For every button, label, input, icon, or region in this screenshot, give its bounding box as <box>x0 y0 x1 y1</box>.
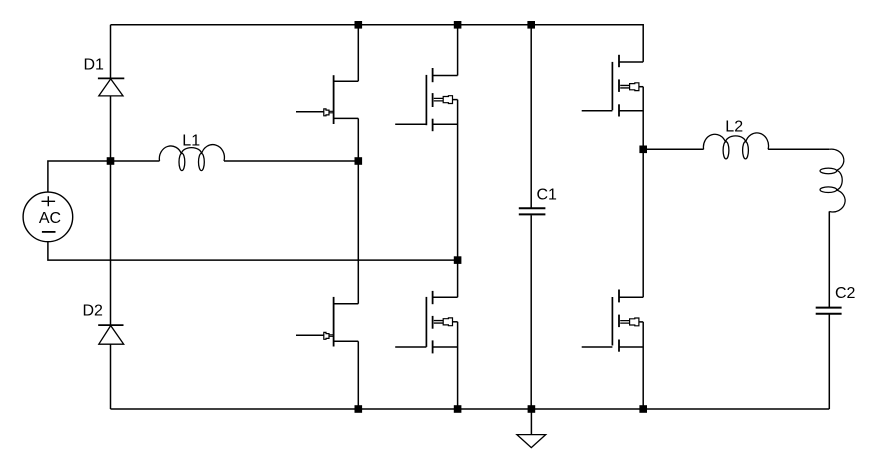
svg-text:L2: L2 <box>725 119 743 136</box>
svg-text:AC: AC <box>39 210 61 227</box>
junction dot L1 left node <box>107 157 115 165</box>
wire left leg middle segment (D1 anode down through L1 node to D2 cathode bar) <box>110 96 112 325</box>
inductor L2 <box>703 133 768 159</box>
transistor Q1 (upper left switch) <box>296 75 358 124</box>
svg-text:D2: D2 <box>83 303 104 320</box>
capacitor C2 <box>816 308 842 314</box>
wire C2 bottom plate to bottom rail <box>828 315 830 410</box>
junction dot bottom rail ground <box>528 405 536 413</box>
transistor Q4 MOSFET (lower middle) <box>395 291 457 354</box>
wire L2 node to L2 coil <box>643 148 703 150</box>
svg-text:L1: L1 <box>182 133 200 150</box>
wire left leg top segment (top rail to D1 cathode bar) <box>110 25 112 79</box>
wire leg3 Q6 source to bottom rail <box>642 322 644 409</box>
junction dot bottom rail leg3 <box>639 405 647 413</box>
wire leg3 Q5 source down to L2 node <box>642 87 644 150</box>
junction dot L2 node leg3 <box>639 146 647 154</box>
wire L1 right side to phase-leg node <box>224 160 358 162</box>
transistor Q2 MOSFET (upper middle) <box>395 68 457 131</box>
wire top rail from left leg to right leg with corner down to Q5 drain <box>111 25 644 62</box>
junction dot L1 right phase node <box>355 157 363 165</box>
inductor vertical coil (output filter) <box>820 149 845 212</box>
wire leg1 Q1 source down through L1 node to Q3 drain <box>357 118 359 303</box>
junction dot bottom rail leg1 <box>355 405 363 413</box>
junction dot top rail C1 <box>527 21 535 29</box>
junction dot mid node leg2 <box>454 256 462 264</box>
wire AC source plus terminal up and right to node at left leg <box>48 161 160 192</box>
wire C1 top (top rail to C1 plate) <box>530 25 532 208</box>
wire leg3 L2 node down to Q6 drain <box>642 149 644 297</box>
wire ground stub <box>530 409 532 435</box>
diode D1 <box>98 78 124 96</box>
junction dot top rail leg2 <box>454 21 462 29</box>
diode D2 <box>98 325 124 344</box>
inductor L1 <box>159 145 224 171</box>
AC source VS1 <box>23 192 73 242</box>
ground symbol <box>517 435 546 448</box>
transistor Q6 MOSFET (lower right) <box>582 290 644 352</box>
wire leg2 Q4 source to bottom rail <box>457 322 459 409</box>
junction dot bottom rail leg2 <box>454 405 462 413</box>
wire leg2 Q2 drain vertical <box>457 25 459 76</box>
wire AC source minus terminal down and right to mid node at second leg <box>48 242 458 260</box>
svg-text:C1: C1 <box>537 187 558 204</box>
junction dot top rail leg1 <box>355 21 363 29</box>
wire left leg bottom segment (D2 anode to bottom rail) <box>110 344 112 409</box>
transistor Q3 (lower left switch) <box>296 297 358 347</box>
wire bottom rail <box>111 408 830 410</box>
wire leg1 Q3 source to bottom rail <box>357 341 359 409</box>
wire leg2 Q2 source down through mid node to Q4 drain <box>457 100 459 298</box>
svg-text:C2: C2 <box>835 285 856 302</box>
wire vertical coil to C2 top plate <box>828 211 830 307</box>
svg-text:D1: D1 <box>84 56 105 73</box>
capacitor C1 <box>519 208 546 214</box>
wire C1 bottom (C1 plate to bottom rail) <box>530 215 532 409</box>
wire L2 coil to output corner <box>768 148 829 150</box>
wire leg1 Q1 drain vertical <box>357 25 359 81</box>
transistor Q5 MOSFET (upper right) <box>582 55 644 117</box>
